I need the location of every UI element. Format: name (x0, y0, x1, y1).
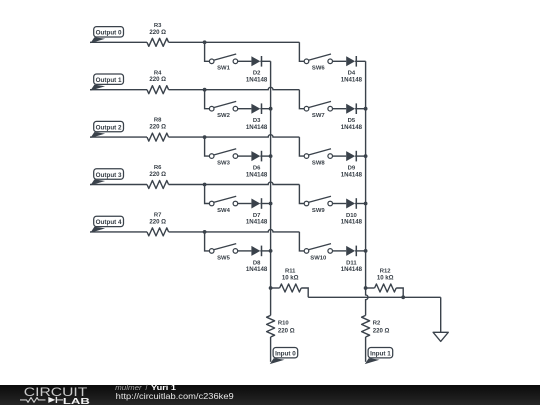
svg-text:Output 1: Output 1 (96, 77, 122, 84)
svg-text:SW5: SW5 (217, 255, 230, 261)
svg-text:R10: R10 (278, 320, 290, 326)
svg-text:Input 1: Input 1 (370, 351, 391, 358)
svg-text:http://circuitlab.com/c236ke9: http://circuitlab.com/c236ke9 (116, 391, 234, 401)
svg-text:SW8: SW8 (312, 161, 325, 167)
svg-text:220 Ω: 220 Ω (149, 29, 166, 36)
svg-text:Output 0: Output 0 (96, 30, 122, 37)
svg-text:1N4148: 1N4148 (246, 266, 268, 273)
svg-text:SW2: SW2 (217, 113, 230, 119)
svg-text:10 kΩ: 10 kΩ (282, 275, 299, 282)
svg-text:1N4148: 1N4148 (341, 77, 363, 84)
svg-text:1N4148: 1N4148 (246, 124, 268, 131)
svg-text:SW3: SW3 (217, 161, 230, 167)
svg-text:220 Ω: 220 Ω (278, 327, 295, 334)
svg-text:LAB: LAB (63, 397, 90, 405)
svg-text:R12: R12 (380, 268, 392, 274)
svg-text:Output 3: Output 3 (96, 172, 122, 179)
svg-text:SW10: SW10 (310, 255, 327, 261)
svg-text:1N4148: 1N4148 (341, 266, 363, 273)
svg-text:1N4148: 1N4148 (246, 219, 268, 226)
svg-text:1N4148: 1N4148 (341, 171, 363, 178)
svg-text:220 Ω: 220 Ω (149, 76, 166, 83)
svg-text:220 Ω: 220 Ω (149, 218, 166, 225)
svg-text:1N4148: 1N4148 (341, 219, 363, 226)
svg-text:1N4148: 1N4148 (341, 124, 363, 131)
svg-text:1N4148: 1N4148 (246, 171, 268, 178)
svg-text:R2: R2 (373, 320, 381, 326)
svg-text:220 Ω: 220 Ω (149, 124, 166, 131)
svg-text:SW4: SW4 (217, 208, 230, 214)
svg-text:Output 2: Output 2 (96, 124, 122, 131)
svg-text:SW6: SW6 (312, 66, 325, 72)
svg-text:1N4148: 1N4148 (246, 77, 268, 84)
svg-text:220 Ω: 220 Ω (149, 171, 166, 178)
svg-text:SW1: SW1 (217, 66, 230, 72)
svg-text:Output 4: Output 4 (96, 219, 122, 226)
svg-text:SW9: SW9 (312, 208, 325, 214)
svg-text:R11: R11 (285, 268, 296, 274)
svg-text:220 Ω: 220 Ω (373, 327, 390, 334)
svg-text:SW7: SW7 (312, 113, 325, 119)
svg-text:10 kΩ: 10 kΩ (377, 275, 394, 282)
svg-text:Input 0: Input 0 (275, 351, 296, 358)
